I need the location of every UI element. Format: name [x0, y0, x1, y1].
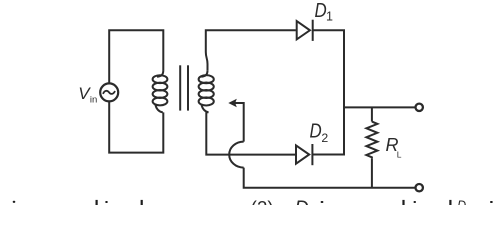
- secondary winding exit hook: [201, 104, 208, 112]
- wire D1 cathode to corner and down to D2: [312, 30, 344, 154]
- svg-text:D: D: [295, 197, 309, 205]
- svg-text:L: L: [397, 149, 402, 159]
- svg-text:(2): (2): [251, 198, 274, 205]
- secondary winding loop 4: [199, 97, 214, 105]
- caption d-stem of second "biased": [449, 200, 451, 205]
- caption d-stem of "biased": [141, 200, 143, 205]
- svg-text:D: D: [310, 120, 322, 142]
- secondary winding loop 3: [199, 90, 214, 98]
- wire mid rail to output terminal: [344, 106, 415, 108]
- transformer core bar 1: [179, 65, 181, 110]
- center tap arrowhead: [228, 99, 237, 108]
- caption i-dot after first D: [321, 201, 324, 203]
- wire secondary top lead: [206, 30, 296, 70]
- svg-text:in: in: [90, 95, 97, 106]
- diode D2 triangle: [296, 145, 309, 163]
- svg-text:2: 2: [321, 131, 328, 145]
- secondary winding loop 2: [199, 83, 214, 91]
- diode D1 cathode bar: [312, 20, 314, 41]
- wire left loop bottom: [109, 102, 163, 153]
- caption b-stem of "biased": [96, 200, 98, 205]
- wire RL bottom lead: [371, 158, 373, 187]
- output terminal top: [416, 104, 423, 111]
- svg-text:D: D: [315, 0, 327, 22]
- caption i-dot of "is": [13, 201, 16, 203]
- wire center tap down to bottom rail: [244, 168, 415, 188]
- wire left loop top: [109, 30, 163, 83]
- center tap arrow line: [235, 103, 244, 142]
- primary winding loop 1: [153, 75, 168, 83]
- transformer core bar 2: [187, 65, 189, 110]
- wire secondary bottom lead: [206, 112, 295, 154]
- sine wave inside source: [103, 91, 115, 94]
- resistor RL zigzag: [366, 122, 377, 159]
- AC source Vin circle: [100, 83, 118, 101]
- output terminal bottom: [416, 184, 423, 191]
- svg-text:D: D: [457, 198, 466, 205]
- caption i-dot of "biased": [105, 201, 108, 203]
- diode D1 triangle: [297, 21, 310, 39]
- bottom cut-off caption fragments: [13, 197, 493, 219]
- secondary winding entry hook: [201, 70, 207, 77]
- caption i-dot at right edge: [490, 201, 493, 203]
- primary winding exit hook: [155, 104, 163, 112]
- center tap hop over wire: [229, 142, 244, 168]
- primary winding loop 2: [153, 83, 168, 91]
- primary winding loop 3: [153, 90, 168, 98]
- svg-text:1: 1: [326, 9, 333, 23]
- caption b-stem of second "biased": [402, 200, 404, 205]
- caption i-dot of second "biased": [414, 201, 417, 203]
- primary winding L1 entry hook: [157, 70, 163, 77]
- wire RL top lead: [371, 107, 373, 121]
- primary winding loop 4: [153, 97, 168, 105]
- diode D2 cathode bar: [311, 144, 313, 165]
- secondary winding loop 1: [199, 75, 214, 83]
